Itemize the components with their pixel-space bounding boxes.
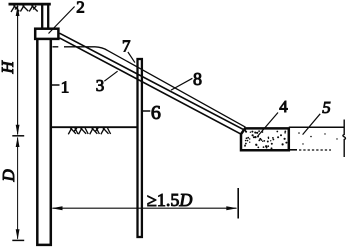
beam break line at right end: [343, 120, 346, 158]
ground hatch marks (top): [11, 6, 38, 13]
beam sparse dots: [298, 132, 337, 145]
tick for label 1: [52, 84, 60, 86]
waling beam (5): [289, 126, 344, 128]
svg-text:3: 3: [96, 76, 105, 95]
tie rod lower line: [60, 38, 243, 135]
leader to 8: [171, 78, 192, 90]
excavation hatch marks: [68, 128, 110, 135]
dimension tick between H and D: [12, 135, 24, 137]
svg-text:2: 2: [76, 0, 85, 16]
right tick of dimension: [237, 188, 239, 219]
tick for label 6: [143, 110, 150, 112]
pile stub above cap: [42, 5, 48, 28]
dimension line >=1.5D: [53, 207, 237, 209]
svg-text:D: D: [0, 169, 18, 183]
leader to 2: [49, 7, 75, 34]
svg-text:H: H: [0, 60, 17, 75]
cap beam (2): [35, 29, 58, 39]
anchor pile (6): [138, 59, 142, 237]
svg-text:6: 6: [151, 102, 161, 124]
svg-text:≥1.5D: ≥1.5D: [147, 190, 192, 210]
leader to 5: [303, 114, 321, 135]
excavation surface line: [52, 126, 141, 128]
tie rod upper line (3): [60, 33, 245, 130]
dimension H line with arrows: [17, 7, 19, 135]
dimension D line with arrows: [17, 138, 19, 239]
svg-text:8: 8: [193, 69, 202, 89]
retaining pile wall (1): [37, 40, 51, 245]
dashed line at anchor head level: [53, 46, 96, 48]
svg-text:4: 4: [279, 97, 288, 116]
leader to 3: [104, 71, 117, 81]
anchor block (4) with stipple: [241, 128, 289, 150]
leader to 4: [258, 113, 278, 137]
svg-text:7: 7: [122, 37, 131, 56]
svg-text:5: 5: [322, 98, 331, 117]
ground surface line: [9, 3, 51, 6]
svg-text:1: 1: [61, 78, 69, 97]
dimension tick bottom: [12, 239, 24, 241]
casing line bending into incline (upper third line): [95, 47, 246, 127]
leader to 7: [128, 52, 135, 63]
